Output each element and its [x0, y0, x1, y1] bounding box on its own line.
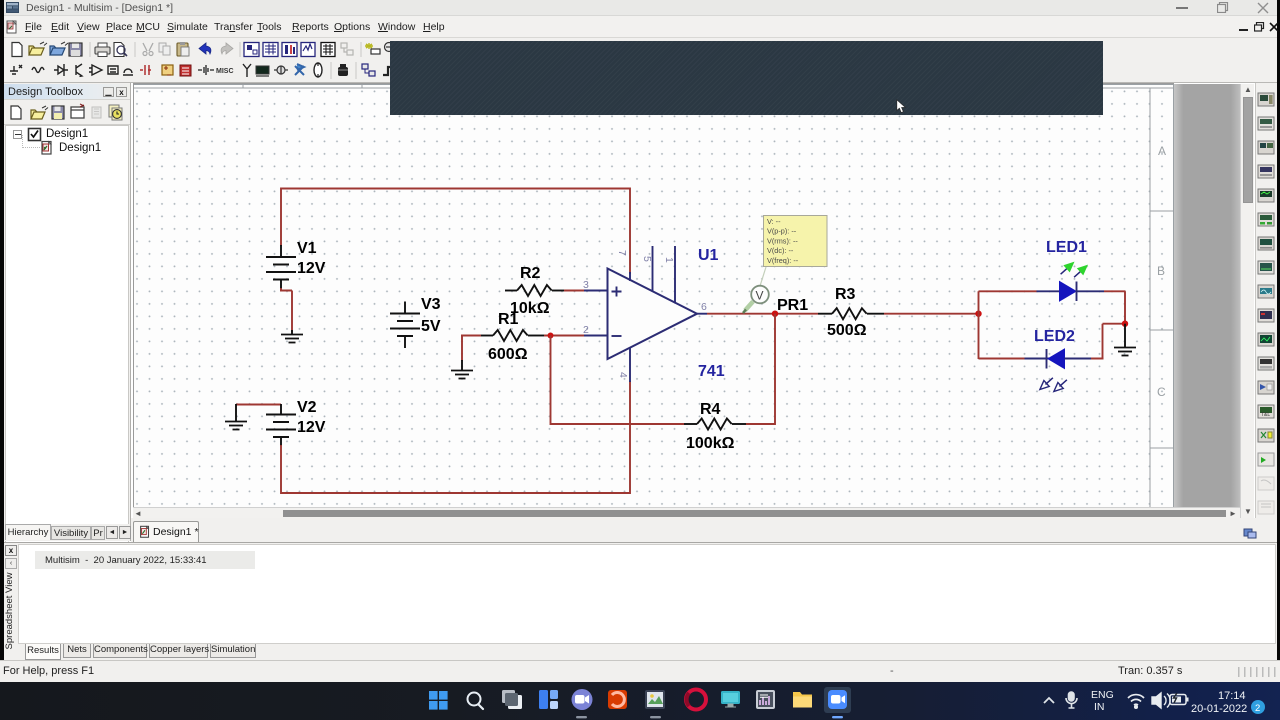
svg-text:7: 7	[616, 250, 628, 256]
pill	[314, 63, 322, 77]
copy (gray)	[159, 43, 166, 52]
wire junction down to R4	[550, 336, 552, 426]
sheet white with dot grid	[133, 83, 1174, 507]
wire op-amp output	[697, 313, 707, 315]
instruments toolbar column	[1255, 83, 1277, 563]
task view	[502, 690, 515, 703]
checkbox sheet icon	[27, 127, 42, 142]
photos	[645, 690, 665, 709]
mouse cursor	[896, 99, 908, 115]
open	[29, 46, 44, 55]
preview	[114, 43, 124, 57]
svg-text:V1: V1	[297, 240, 317, 257]
battery V1	[266, 245, 296, 289]
navy group of 5	[244, 43, 315, 57]
wire top rail	[281, 188, 630, 190]
left black edge	[0, 0, 4, 682]
LED2 arrows	[1037, 375, 1055, 393]
monitor	[721, 691, 740, 704]
vertical scrollbar	[1240, 84, 1254, 518]
svg-text:A: A	[1158, 144, 1166, 158]
hierarchical block	[362, 64, 368, 69]
svg-text:500Ω: 500Ω	[827, 322, 867, 339]
grayed hierarchy icon	[341, 43, 353, 55]
op-amp U1	[608, 269, 698, 360]
panel toolbar	[4, 101, 130, 125]
op-amp U1 pin 4	[617, 347, 630, 382]
wire V1 top	[280, 188, 282, 247]
transducer	[277, 66, 285, 74]
svg-text:V(rms): --: V(rms): --	[767, 236, 798, 245]
svg-text:3: 3	[583, 279, 589, 291]
svg-text:100kΩ: 100kΩ	[686, 435, 735, 452]
svg-text:ENG: ENG	[1091, 689, 1114, 701]
wire R2 to opamp pin3	[564, 290, 584, 292]
op-amp U1 pin 5	[641, 246, 653, 292]
wire V2 to bottom rail	[280, 445, 282, 494]
ground R1	[461, 360, 463, 370]
svg-text:5V: 5V	[421, 318, 441, 335]
open blue	[50, 46, 65, 55]
LED2	[1046, 349, 1048, 369]
svg-text:5: 5	[641, 256, 653, 262]
bw calendar icon	[321, 43, 335, 57]
sheet border right margin	[1149, 88, 1151, 507]
node PR1 junction	[772, 311, 778, 317]
bottom tabs	[18, 644, 1276, 661]
ground V2	[235, 404, 237, 421]
svg-text:B: B	[1157, 264, 1165, 278]
node junction R1/R2/R4	[548, 333, 554, 339]
search	[468, 693, 481, 706]
circuit svg	[133, 83, 1174, 507]
wire R1 to opamp pin2	[544, 335, 584, 337]
svg-text:R4: R4	[700, 401, 721, 418]
cut (gray)	[143, 43, 153, 51]
Y antenna	[243, 64, 251, 77]
blue xspice	[295, 64, 304, 75]
wire PR1 down to R4	[774, 314, 776, 425]
resistor R2	[505, 285, 564, 296]
undo blue	[199, 43, 211, 55]
right black edge	[1277, 0, 1280, 682]
battery V3	[390, 302, 420, 349]
mdi controls	[1239, 29, 1248, 31]
wire LED2 branch	[979, 314, 1025, 359]
zoom highlighted	[824, 687, 851, 713]
tray	[1036, 682, 1280, 720]
wire LED1 branch	[979, 291, 1037, 313]
svg-text:10kΩ: 10kΩ	[510, 300, 550, 317]
op-amp U1 pin 1	[663, 246, 675, 304]
office	[608, 690, 627, 709]
resistor R1	[481, 330, 544, 341]
dark overlay rectangle	[390, 41, 1103, 115]
battery icon	[198, 65, 214, 75]
window controls	[1176, 7, 1188, 9]
sep	[89, 42, 91, 57]
new	[12, 43, 22, 57]
left strip	[5, 545, 17, 556]
node junction LED1/LED2 anodes	[975, 311, 981, 317]
probe PR1 voltage probe circle	[751, 286, 769, 304]
paste	[177, 43, 188, 56]
sheet border top	[134, 85, 1174, 508]
svg-text:V(freq): --: V(freq): --	[767, 256, 799, 265]
wire V1 to ground	[280, 288, 292, 332]
svg-text:600Ω: 600Ω	[488, 346, 528, 363]
white content	[18, 544, 1276, 644]
child row	[22, 135, 23, 148]
svg-text:V(dc): --: V(dc): --	[767, 246, 794, 255]
yellow-star icon	[365, 43, 373, 49]
svg-text:V: --: V: --	[767, 217, 781, 226]
svg-text:R3: R3	[835, 286, 856, 303]
op-amp U1 pin 7	[616, 250, 630, 281]
misc shapes	[108, 66, 118, 74]
svg-text:R2: R2	[520, 265, 541, 282]
expand box	[13, 130, 22, 139]
probe PR1 needle	[745, 302, 753, 311]
svg-text:V2: V2	[297, 399, 317, 416]
ground LED	[1124, 324, 1126, 347]
wire R1 ground branch	[461, 336, 481, 362]
wire LED1 to right corner	[1104, 291, 1126, 324]
svg-text:PR1: PR1	[777, 297, 808, 314]
LED1	[1060, 282, 1077, 302]
svg-text:20-01-2022: 20-01-2022	[1191, 703, 1247, 715]
svg-text:C: C	[1157, 385, 1166, 399]
toolbar row 1 icons	[4, 40, 394, 59]
resistor R4	[684, 419, 746, 430]
gray out-of-sheet area	[1174, 84, 1240, 507]
redo gray	[221, 43, 233, 55]
dark screen	[256, 66, 269, 74]
perf monitor	[756, 690, 775, 709]
svg-text:V: V	[756, 289, 764, 303]
sep	[134, 42, 136, 57]
svg-text:MISC: MISC	[216, 68, 234, 75]
menu bar	[4, 16, 1277, 38]
svg-text:4: 4	[617, 372, 629, 378]
svg-text:6: 6	[701, 301, 707, 313]
wire right-bottom vertical to pin4	[629, 381, 631, 494]
wire right-top vertical to pin7	[629, 188, 631, 275]
circle-minus icon	[385, 43, 394, 52]
gnd-ish	[10, 65, 22, 74]
red components	[140, 65, 151, 75]
transistor	[76, 64, 82, 77]
svg-text:U1: U1	[698, 247, 719, 264]
toolbar row 2 icons	[4, 60, 394, 81]
svg-text:IN: IN	[1094, 701, 1105, 713]
wire R4 horizontal	[551, 423, 776, 425]
svg-text:V3: V3	[421, 296, 441, 313]
svg-text:17:14: 17:14	[1218, 690, 1246, 702]
title bar	[4, 0, 1277, 16]
chat purple	[572, 689, 593, 710]
probe PR1 readout box	[764, 216, 828, 267]
folder	[793, 692, 812, 708]
svg-text:1: 1	[663, 257, 675, 263]
node junction LED cathodes to ground	[1122, 321, 1128, 327]
toolbars background	[4, 38, 1277, 83]
svg-text:LED2: LED2	[1034, 328, 1075, 345]
svg-text:LED1: LED1	[1046, 239, 1087, 256]
wire R3 to LED branch	[884, 313, 979, 315]
svg-text:741: 741	[698, 363, 725, 380]
widgets	[539, 690, 548, 709]
opamp small	[89, 65, 102, 75]
resistor R3	[818, 308, 884, 319]
ground V1	[291, 330, 293, 334]
print	[95, 47, 110, 54]
LED1 arrows	[1058, 260, 1076, 278]
svg-text:2: 2	[583, 324, 589, 336]
probe PR1 leader line	[760, 267, 766, 286]
svg-text:T&L: T&L	[1261, 412, 1270, 418]
header	[4, 84, 130, 100]
squiggle	[32, 68, 44, 73]
svg-text:2: 2	[1255, 703, 1260, 714]
dark jar	[338, 67, 348, 76]
battery V2	[266, 404, 296, 446]
horizontal scrollbar	[133, 507, 1240, 518]
sep	[239, 42, 241, 57]
svg-text:12V: 12V	[297, 419, 326, 436]
bottom tabs	[4, 524, 130, 541]
diode	[54, 64, 68, 76]
opera gx	[686, 690, 706, 710]
underlines	[576, 716, 587, 718]
windows	[429, 691, 448, 710]
svg-text:V(p-p): --: V(p-p): --	[767, 227, 797, 236]
tree area	[5, 125, 129, 565]
wire LED2 to right corner	[1091, 324, 1126, 359]
wire V2 ground link	[236, 404, 281, 406]
bus	[383, 67, 393, 75]
wire bottom rail	[281, 492, 630, 494]
save	[69, 43, 82, 56]
svg-text:12V: 12V	[297, 260, 326, 277]
